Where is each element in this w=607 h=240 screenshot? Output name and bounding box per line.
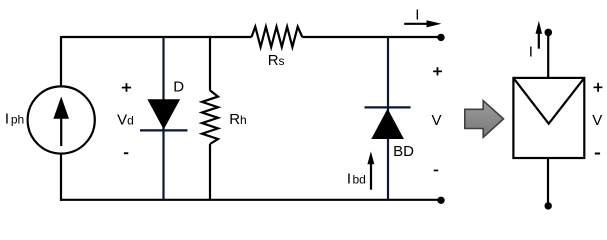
node terminal positive	[437, 34, 444, 41]
wire bottom rail	[61, 199, 441, 201]
svg-text:Ibd: Ibd	[347, 170, 366, 187]
resistor Rh	[202, 90, 218, 144]
diode BD	[365, 107, 411, 139]
svg-text:V: V	[592, 112, 602, 129]
wire diode BD branch	[387, 37, 389, 200]
node PV bottom terminal	[545, 202, 552, 209]
node terminal negative	[437, 197, 444, 204]
svg-text:Iph: Iph	[5, 111, 24, 128]
PV cell symbol U1	[513, 78, 584, 158]
wire diode D branch	[162, 37, 164, 200]
svg-text:V: V	[432, 112, 442, 129]
resistor Rs	[252, 27, 303, 47]
wire top rail right segment	[302, 36, 441, 38]
svg-text:Vd: Vd	[117, 112, 134, 129]
label + (Vd plus)	[122, 83, 131, 92]
wire left rail lower	[60, 154, 62, 201]
wire resistor Rh branch upper	[209, 37, 211, 90]
label + (V plus)	[433, 67, 442, 75]
wire resistor Rh branch lower	[209, 144, 211, 200]
node PV top terminal	[545, 29, 553, 37]
label - (Vd minus)	[124, 152, 128, 154]
wire PV top lead	[547, 32, 549, 78]
equivalence arrow	[465, 101, 504, 138]
wire left rail upper	[60, 36, 62, 87]
svg-text:D: D	[173, 78, 184, 95]
svg-text:Rh: Rh	[229, 111, 247, 128]
svg-text:BD: BD	[393, 143, 414, 160]
current arrow Ibd	[367, 151, 374, 189]
label - (PV minus)	[595, 153, 600, 155]
label + (PV plus)	[594, 83, 603, 92]
svg-text:I: I	[529, 44, 533, 61]
label - (V minus)	[434, 170, 439, 172]
wire top rail left segment	[61, 36, 252, 38]
current arrow I (output)	[404, 20, 441, 27]
svg-text:Rs: Rs	[268, 52, 285, 69]
diode D	[140, 99, 188, 130]
svg-text:I: I	[415, 7, 419, 24]
wire PV bottom lead	[547, 158, 549, 206]
current source Iph	[28, 86, 95, 153]
current arrow I (PV)	[536, 21, 543, 49]
